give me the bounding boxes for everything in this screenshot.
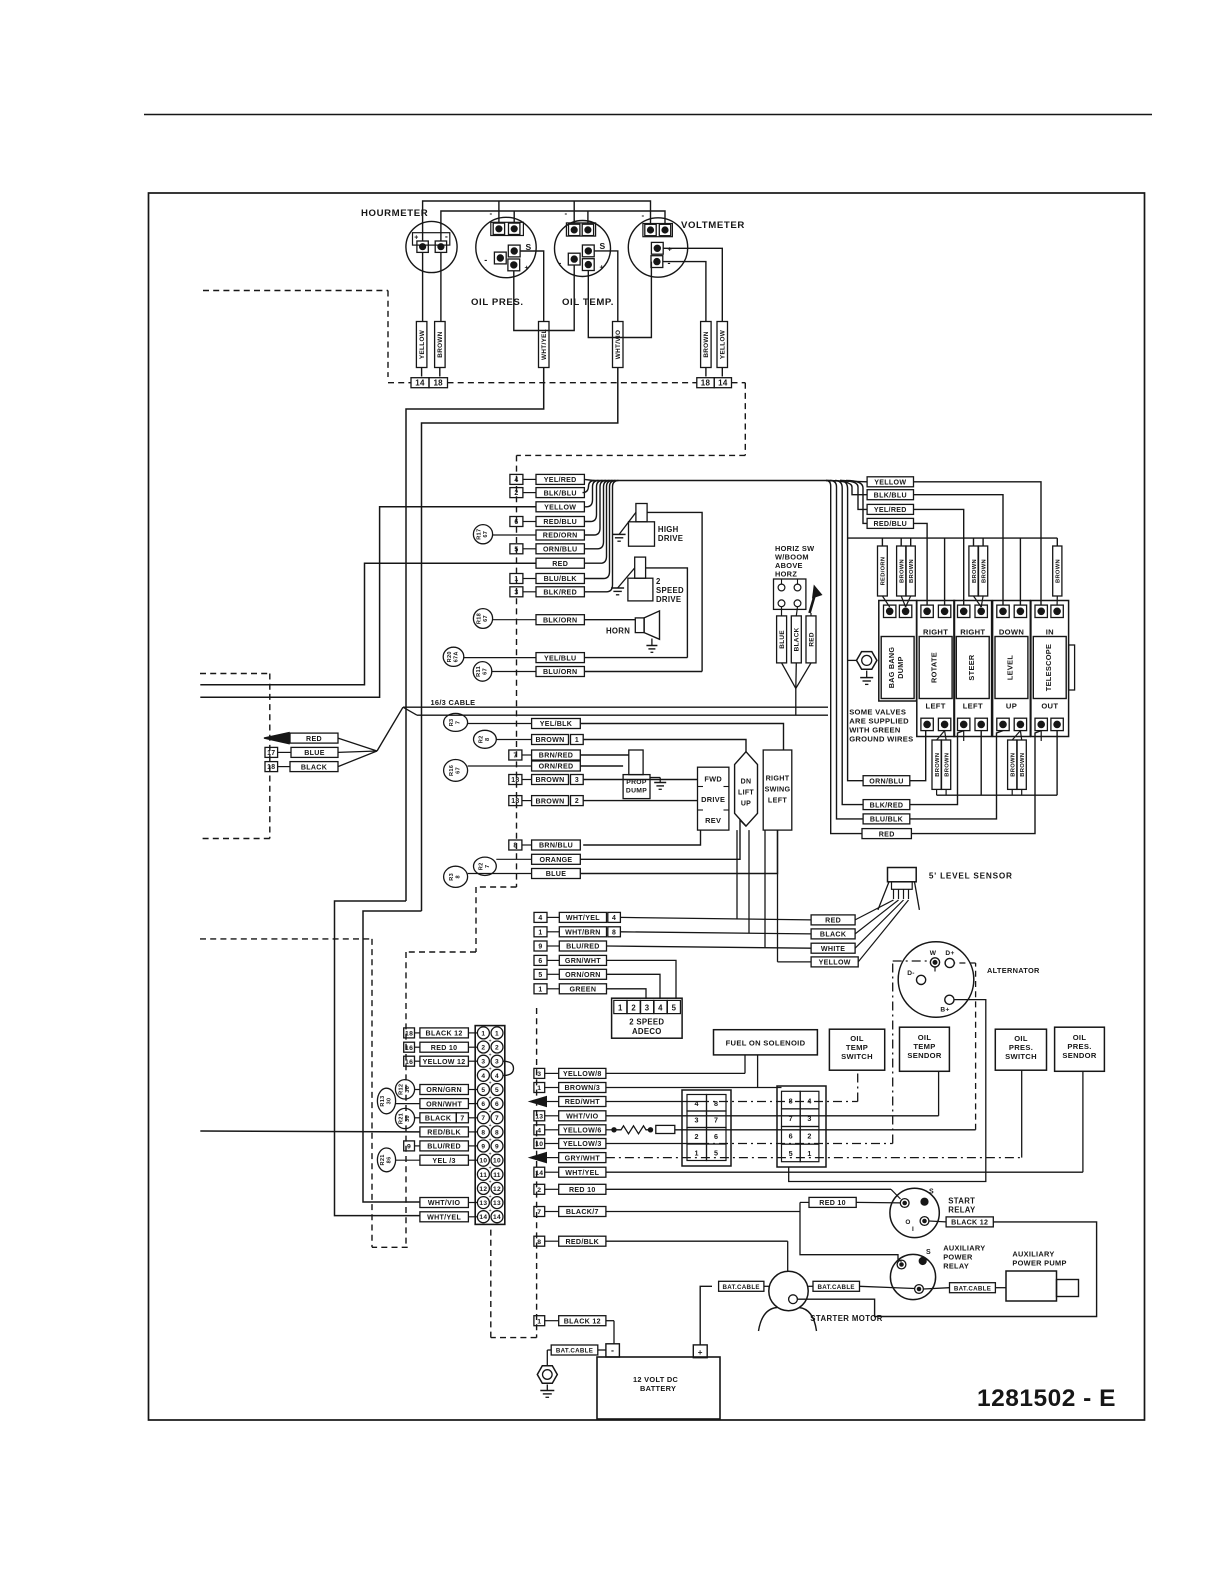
svg-text:BRN/RED: BRN/RED: [539, 752, 573, 760]
svg-text:BROWN: BROWN: [1011, 753, 1017, 777]
svg-text:SENDOR: SENDOR: [907, 1051, 942, 1060]
wire BLACK 12 to battery negative: [606, 1320, 614, 1322]
svg-text:FWD: FWD: [704, 775, 722, 784]
wire YEL/BLU to 2 speed drive: [584, 657, 687, 659]
svg-text:RED/BLK: RED/BLK: [427, 1129, 461, 1137]
telescope side bracket: [1069, 645, 1075, 690]
wire hourmeter to terminal 18: [440, 252, 442, 321]
wire alternator B+ to engine connector: [789, 1000, 986, 1182]
svg-text:+: +: [489, 1180, 492, 1186]
ground (prop dump): [650, 777, 660, 779]
relay terminal oval R3-8: [444, 866, 468, 887]
svg-text:OIL: OIL: [1014, 1034, 1028, 1043]
wire label RED/WHT (stack4): [528, 1096, 547, 1108]
dashed harness path upper-left: [203, 290, 388, 292]
wire WHT/YEL to RED: [620, 917, 811, 920]
svg-text:18: 18: [267, 764, 275, 771]
wire label BROWN (stack2): [509, 796, 522, 806]
wire label BLACK/7 (stack4): [534, 1207, 545, 1217]
svg-text:2 SPEED: 2 SPEED: [629, 1018, 664, 1027]
svg-text:5: 5: [672, 1004, 677, 1013]
svg-text:+: +: [525, 263, 530, 272]
svg-text:I: I: [912, 1226, 914, 1233]
wire YELLOW/6 to alternator D+: [675, 1129, 976, 1131]
wire stub level right: [1019, 538, 1021, 605]
svg-text:13: 13: [479, 1200, 487, 1207]
wire label BLUE (horiz sw): [781, 607, 783, 616]
connector bulkhead 14-pin: [475, 1026, 505, 1225]
wire drops from drive contactors: [736, 830, 738, 919]
svg-text:8: 8: [495, 1129, 499, 1136]
svg-text:BLK/BLU: BLK/BLU: [544, 489, 577, 497]
wire label RED 10 (bulkhead): [404, 1042, 415, 1052]
wire label BLACK (level sensor): [811, 929, 855, 939]
solenoid 2 SPEED DRIVE: [635, 557, 646, 578]
svg-text:ORN/WHT: ORN/WHT: [426, 1100, 462, 1108]
pump AUXILIARY POWER PUMP: [1006, 1271, 1057, 1301]
svg-text:OIL: OIL: [918, 1033, 932, 1042]
svg-text:5' LEVEL SENSOR: 5' LEVEL SENSOR: [929, 872, 1013, 881]
svg-text:RED: RED: [879, 830, 895, 838]
wire ORN/RED to prop dump: [580, 765, 623, 767]
oil temperature gauge: [555, 221, 611, 277]
svg-text:4: 4: [495, 1073, 499, 1080]
svg-text:ROTATE: ROTATE: [930, 652, 939, 683]
valve STEER: [954, 601, 992, 737]
svg-text:SENDOR: SENDOR: [1062, 1051, 1097, 1060]
wire label ORN/GRN (bulkhead): [420, 1085, 469, 1095]
svg-text:30: 30: [405, 1115, 411, 1122]
svg-text:9: 9: [495, 1144, 499, 1151]
wire BLK/ORN to horn: [584, 619, 635, 621]
relay terminal oval R12-30: [395, 1080, 414, 1099]
wire label BROWN/3 (stack4): [534, 1083, 545, 1093]
svg-text:2: 2: [514, 490, 518, 497]
svg-text:2: 2: [631, 1004, 636, 1013]
svg-text:SWING: SWING: [765, 785, 791, 794]
valve ROTATE: [917, 601, 955, 737]
svg-text:FUEL ON SOLENOID: FUEL ON SOLENOID: [726, 1039, 806, 1048]
svg-text:8: 8: [513, 843, 517, 850]
sensor 5' LEVEL SENSOR: [888, 868, 917, 882]
contactor RIGHT SWING LEFT: [763, 750, 792, 830]
svg-text:+: +: [600, 263, 605, 272]
svg-text:WHT/YEL: WHT/YEL: [541, 329, 548, 360]
svg-text:AUXILIARY: AUXILIARY: [943, 1244, 985, 1253]
wire label BAT.CABLE (starter to relay): [813, 1281, 860, 1291]
svg-text:9: 9: [407, 1144, 411, 1151]
svg-text:WHT/VIO: WHT/VIO: [566, 1113, 599, 1121]
wire label BAT.CABLE (battery to starter): [719, 1281, 764, 1291]
svg-text:BLACK 12: BLACK 12: [426, 1030, 463, 1038]
wire label RED (stack1): [536, 558, 584, 568]
svg-text:6: 6: [495, 1101, 499, 1108]
battery 12 VOLT DC: [597, 1357, 720, 1419]
wire label BLU/ORN (stack1): [536, 667, 584, 677]
wire label YELLOW 12 (bulkhead): [404, 1056, 415, 1066]
wire label ORN/ORN (stack3): [534, 969, 547, 979]
wire label BLK/BLU (valve feed): [867, 490, 913, 500]
svg-text:+: +: [489, 1208, 492, 1214]
svg-text:HORZ: HORZ: [775, 570, 797, 579]
wire label WHT/YEL (stack4): [534, 1167, 545, 1177]
terminal box 14 (left): [411, 378, 429, 388]
svg-text:-: -: [445, 232, 448, 242]
wire GRY/WHT to oil pres switch: [606, 1157, 1022, 1159]
svg-text:TELESCOPE: TELESCOPE: [1044, 644, 1053, 691]
wire label ORN/BLU (stack1): [510, 544, 523, 554]
svg-text:BLU/BLK: BLU/BLK: [870, 816, 904, 824]
svg-text:LIFT: LIFT: [738, 790, 754, 797]
svg-text:BAG BANG: BAG BANG: [887, 647, 896, 689]
svg-text:BLU/RED: BLU/RED: [427, 1143, 461, 1151]
wire YELLOW row stub to left: [200, 507, 536, 697]
wire label BLU/BLK (level left): [863, 814, 910, 824]
svg-text:R13: R13: [380, 1095, 386, 1106]
wire oil pres S to WHT/YEL: [520, 251, 544, 322]
svg-text:DUMP: DUMP: [626, 788, 647, 795]
svg-text:VOLTMETER: VOLTMETER: [681, 220, 745, 231]
svg-text:POWER PUMP: POWER PUMP: [1012, 1259, 1066, 1268]
svg-text:B+: B+: [940, 1007, 949, 1014]
ground (battery): [546, 1385, 548, 1391]
svg-text:ORN/BLU: ORN/BLU: [869, 777, 903, 785]
svg-text:RED: RED: [306, 735, 322, 743]
svg-text:-: -: [611, 1346, 614, 1356]
svg-text:SOME VALVES: SOME VALVES: [849, 708, 906, 717]
wire labels BROWN BROWN (bag bang dump): [900, 538, 902, 546]
wire label YELLOW/3 (stack4): [534, 1139, 545, 1149]
svg-text:1: 1: [807, 1149, 811, 1158]
svg-text:OIL: OIL: [850, 1034, 864, 1043]
svg-text:YELLOW/3: YELLOW/3: [563, 1140, 602, 1148]
svg-text:BLUE: BLUE: [546, 870, 567, 878]
svg-text:4: 4: [807, 1096, 811, 1105]
svg-text:5: 5: [514, 546, 518, 553]
wire drop YEL/RED to BLK/RED: [835, 481, 863, 805]
wire GREEN to adeco: [607, 989, 647, 999]
svg-text:DUMP: DUMP: [896, 656, 905, 678]
wire label WHT/YEL (bulkhead): [420, 1212, 469, 1222]
wire label BLACK (16/3): [290, 762, 338, 772]
svg-text:30: 30: [387, 1098, 393, 1105]
svg-text:13: 13: [535, 1113, 543, 1120]
svg-text:-: -: [668, 258, 671, 268]
svg-text:2: 2: [495, 1045, 499, 1052]
svg-text:BROWN: BROWN: [972, 559, 978, 583]
wire label RED/ORN (bag bang dump): [881, 538, 883, 546]
wire RED row stub to left: [200, 563, 536, 685]
svg-text:4: 4: [658, 1004, 663, 1013]
wire aux relay to pump: [923, 1288, 949, 1289]
svg-text:S: S: [600, 241, 606, 251]
svg-text:RED/WHT: RED/WHT: [565, 1098, 601, 1106]
wire label ORN/WHT (bulkhead): [420, 1099, 469, 1109]
wire oil temp S to WHT/VIO: [594, 251, 618, 322]
svg-text:RED/BLU: RED/BLU: [873, 520, 907, 528]
svg-text:7: 7: [460, 1115, 464, 1122]
ground (2 speed drive): [618, 568, 635, 588]
wire BLUE to right swing left bottom: [580, 830, 777, 873]
svg-text:2: 2: [695, 1132, 699, 1141]
svg-text:30: 30: [405, 1086, 411, 1093]
ground lug (valve bank): [857, 652, 877, 670]
svg-text:6: 6: [789, 1132, 793, 1141]
svg-text:86: 86: [387, 1156, 393, 1163]
wire label YELLOW (valve feed): [867, 477, 913, 487]
svg-text:S: S: [929, 1189, 934, 1196]
wire elbow YEL/RED to steer RIGHT: [914, 509, 964, 604]
wire BROWN-1 to dn lift up: [583, 740, 746, 752]
svg-text:OIL: OIL: [1073, 1033, 1087, 1042]
wire label YEL/BLU (stack1): [536, 653, 584, 663]
wire label WHT/YEL (stack3): [534, 912, 547, 922]
wire oil pres + to oil temp -: [514, 265, 574, 331]
svg-text:DN: DN: [741, 779, 752, 786]
svg-text:14: 14: [415, 378, 425, 387]
svg-text:67: 67: [456, 767, 462, 774]
wire WHT/VIO to oil temp sendor: [606, 1115, 939, 1117]
wire BLACK/7 to relay node: [606, 1211, 800, 1213]
svg-text:RELAY: RELAY: [948, 1206, 976, 1215]
svg-text:18: 18: [433, 378, 443, 387]
svg-text:BROWN: BROWN: [535, 797, 564, 805]
svg-text:YELLOW: YELLOW: [544, 504, 576, 512]
svg-text:YELLOW 12: YELLOW 12: [423, 1058, 466, 1066]
relay terminal oval R20-67A: [443, 647, 464, 666]
wire label BLUE (stack2): [532, 869, 581, 879]
svg-text:+: +: [489, 1038, 492, 1044]
svg-text:14: 14: [493, 1214, 501, 1221]
wire voltmeter - to BROWN: [663, 262, 706, 322]
connector 2 SPEED ADECO: [612, 998, 683, 1038]
svg-text:3: 3: [537, 1071, 541, 1078]
svg-text:4: 4: [481, 1073, 485, 1080]
wire gauge top bus A: [423, 201, 651, 241]
wire label BLACK 7 (bulkhead): [420, 1113, 456, 1123]
wire label WHT/VIO (stack4): [534, 1111, 545, 1121]
svg-text:1: 1: [514, 576, 518, 583]
svg-text:14: 14: [479, 1214, 487, 1221]
wire label BLACK 12 (start relay out): [929, 1220, 946, 1223]
svg-text:OUT: OUT: [1041, 702, 1058, 711]
svg-text:W: W: [930, 950, 937, 957]
svg-text:3: 3: [807, 1114, 811, 1123]
wire label YEL/BLK (stack2): [532, 719, 581, 729]
wire label BLACK 12 (stack4): [534, 1316, 545, 1326]
svg-text:3: 3: [514, 589, 518, 596]
relay terminal oval R2-8: [474, 730, 497, 748]
svg-text:3: 3: [695, 1116, 699, 1125]
svg-text:16: 16: [405, 1045, 413, 1052]
svg-text:4: 4: [612, 915, 616, 922]
svg-text:67: 67: [483, 615, 489, 622]
svg-text:RED: RED: [552, 560, 568, 568]
wire ORANGE to dn lift up bottom: [580, 820, 746, 859]
wire label BLK/BLU (stack1): [510, 488, 523, 498]
svg-text:+: +: [489, 1052, 492, 1058]
svg-text:5: 5: [538, 972, 542, 979]
wire label ORANGE (stack2): [532, 854, 581, 864]
hourmeter gauge: [406, 221, 457, 272]
wire label GRY/WHT (stack4): [528, 1152, 547, 1164]
svg-text:R21: R21: [398, 1113, 404, 1124]
svg-text:RED 10: RED 10: [569, 1186, 596, 1194]
svg-text:DRIVE: DRIVE: [701, 795, 725, 804]
svg-text:+: +: [489, 1194, 492, 1200]
svg-text:5: 5: [481, 1087, 485, 1094]
terminal box 18 (right): [697, 378, 714, 388]
svg-text:D+: D+: [945, 950, 954, 957]
svg-text:UP: UP: [741, 801, 751, 808]
terminal box 18 (left): [429, 378, 448, 388]
svg-text:3: 3: [645, 1004, 650, 1013]
svg-text:WHT/VIO: WHT/VIO: [428, 1199, 461, 1207]
svg-text:+: +: [489, 1166, 492, 1172]
wire label BLACK 12 (bulkhead): [404, 1028, 415, 1038]
wire RED/WHT to oil temp switch: [606, 1101, 700, 1103]
svg-text:DRIVE: DRIVE: [658, 534, 683, 543]
wire label YEL/RED (stack1): [510, 474, 523, 484]
svg-text:BROWN: BROWN: [935, 753, 941, 777]
wire label RED (horiz sw): [810, 613, 812, 616]
horn: [635, 618, 644, 633]
wire label BLU/BLK (stack1): [510, 574, 523, 584]
wire label ORN/BLU (rotate left): [863, 776, 910, 786]
dashed harness path between terminal boxes: [448, 382, 697, 384]
svg-text:BROWN: BROWN: [900, 559, 906, 583]
wire BROWN-3 to fwd box: [583, 779, 697, 781]
svg-text:S: S: [926, 1249, 931, 1256]
wire label RED/BLU (valve feed): [867, 518, 913, 528]
svg-text:7: 7: [485, 865, 491, 868]
wire battery negative to ground: [598, 1349, 606, 1351]
svg-text:O: O: [905, 1219, 910, 1226]
wire fuel solenoid drop 2: [757, 1055, 759, 1088]
wire fuel solenoid drop 1: [744, 1055, 746, 1074]
svg-text:ORN/RED: ORN/RED: [539, 763, 574, 771]
wire label BROWN (telescope): [1056, 538, 1058, 546]
svg-text:ADECO: ADECO: [632, 1027, 662, 1036]
relay terminal oval R13-30: [377, 1088, 395, 1114]
svg-text:8: 8: [485, 738, 491, 741]
svg-text:6: 6: [481, 1101, 485, 1108]
svg-text:LEFT: LEFT: [768, 796, 787, 805]
svg-text:SWITCH: SWITCH: [1005, 1052, 1037, 1061]
svg-text:-: -: [642, 211, 645, 220]
switch OIL PRES SWITCH: [995, 1029, 1046, 1070]
svg-text:1: 1: [695, 1149, 699, 1158]
valve BAG BANG DUMP: [879, 601, 917, 702]
svg-text:1: 1: [538, 929, 542, 936]
wire label BAT.CABLE (relay to pump): [950, 1283, 996, 1293]
svg-text:SPEED: SPEED: [656, 586, 684, 595]
svg-text:ALTERNATOR: ALTERNATOR: [987, 966, 1040, 975]
svg-text:RED/BLK: RED/BLK: [565, 1238, 599, 1246]
svg-text:REV: REV: [705, 816, 721, 825]
contactor FWD DRIVE REV: [698, 767, 729, 830]
jumper pins 3-4: [503, 1061, 514, 1075]
wire elbow RED/BLU to rotate RIGHT: [914, 523, 928, 604]
wire label RED/BLK (bulkhead): [420, 1127, 469, 1137]
svg-text:R21: R21: [380, 1154, 386, 1165]
svg-text:YELLOW: YELLOW: [874, 479, 906, 487]
svg-text:R18: R18: [476, 613, 482, 624]
svg-text:WHT/YEL: WHT/YEL: [565, 1169, 599, 1177]
wire WHT/VIO long run to connector pin 13: [422, 368, 618, 912]
svg-text:18: 18: [701, 378, 711, 387]
wire WHT/BRN to BLACK: [620, 932, 811, 934]
svg-text:YELLOW: YELLOW: [419, 329, 426, 359]
svg-text:7: 7: [495, 1115, 499, 1122]
svg-text:HOURMETER: HOURMETER: [361, 208, 428, 219]
svg-text:RED/ORN: RED/ORN: [881, 557, 887, 586]
svg-text:-: -: [558, 258, 561, 268]
svg-text:BAT.CABLE: BAT.CABLE: [818, 1284, 855, 1291]
svg-text:PRES.: PRES.: [1009, 1043, 1033, 1052]
wire RED 10 to start relay: [606, 1188, 891, 1190]
svg-text:WHT/YEL: WHT/YEL: [566, 914, 600, 922]
valve LEVEL: [993, 601, 1031, 737]
wire label YELLOW/6 (stack4): [534, 1125, 545, 1135]
wire bus stack1 to right label stack: [594, 480, 827, 482]
relay terminal oval R11-67: [473, 662, 492, 682]
svg-text:RED 10: RED 10: [819, 1199, 846, 1207]
svg-text:+: +: [489, 1109, 492, 1115]
svg-text:HORN: HORN: [606, 627, 630, 636]
svg-text:BLACK: BLACK: [794, 627, 801, 651]
svg-text:14: 14: [535, 1170, 543, 1177]
wire elbow YELLOW to telescope IN: [914, 482, 1042, 605]
wire label YELLOW/8 (stack4): [534, 1068, 545, 1078]
wire drop BLK/BLU to BLU/BLK: [830, 481, 863, 819]
svg-text:DOWN: DOWN: [999, 628, 1024, 637]
svg-text:BROWN: BROWN: [535, 776, 564, 784]
svg-text:1: 1: [537, 1318, 541, 1325]
wire YEL/BLK to right swing left: [580, 724, 783, 751]
svg-text:16/3 CABLE: 16/3 CABLE: [431, 698, 476, 707]
wire YELLOW sensor feed: [778, 961, 812, 963]
svg-text:+: +: [489, 1123, 492, 1129]
svg-text:ORN/GRN: ORN/GRN: [426, 1086, 462, 1094]
wire valve ground daisy chain: [937, 794, 1058, 796]
wire label BLK/ORN (stack1): [536, 615, 584, 625]
svg-text:WHITE: WHITE: [821, 945, 845, 953]
wire start relay to starter loop: [798, 1222, 1097, 1317]
svg-text:8: 8: [612, 929, 616, 936]
wire label YELLOW (stack1): [536, 502, 584, 512]
arrow (16/3 cable breakout): [264, 733, 289, 744]
wire label YEL/RED (valve feed): [867, 504, 913, 514]
wire label ORN/RED (stack2): [532, 761, 581, 771]
svg-text:3: 3: [575, 777, 579, 784]
svg-text:5: 5: [789, 1149, 793, 1158]
svg-text:2: 2: [575, 798, 579, 805]
relay terminal oval R21-30: [395, 1108, 414, 1128]
motor STARTER MOTOR: [769, 1271, 808, 1310]
svg-text:TEMP: TEMP: [913, 1042, 935, 1051]
ground (valve bank): [866, 671, 868, 678]
svg-text:STARTER MOTOR: STARTER MOTOR: [810, 1314, 882, 1323]
svg-text:RED 10: RED 10: [431, 1044, 458, 1052]
svg-text:YEL/RED: YEL/RED: [874, 506, 907, 514]
svg-text:7: 7: [481, 1115, 485, 1122]
wire bus fan to valve feed labels: [826, 481, 867, 495]
svg-text:RIGHT: RIGHT: [766, 774, 790, 783]
svg-text:YELLOW: YELLOW: [819, 959, 851, 967]
dashed harness path right of terminal 14: [732, 382, 746, 384]
svg-text:8: 8: [789, 1096, 793, 1105]
